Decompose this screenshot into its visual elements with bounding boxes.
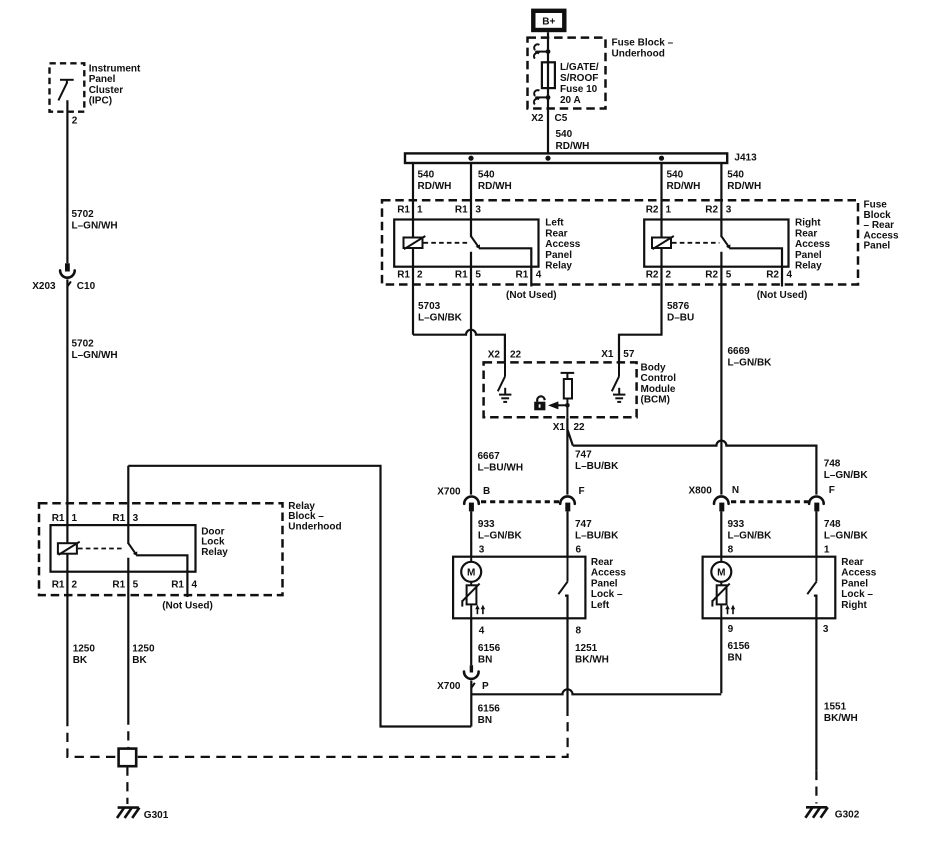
svg-text:R1: R1 bbox=[112, 579, 125, 590]
junction dot on J413 at 661.5 bbox=[659, 156, 664, 161]
svg-text:R1: R1 bbox=[52, 579, 65, 590]
svg-text:5: 5 bbox=[475, 269, 481, 280]
junction dot on J413 at 548 bbox=[545, 156, 550, 161]
svg-text:L–GN/BK: L–GN/BK bbox=[824, 470, 869, 481]
svg-text:748: 748 bbox=[824, 458, 841, 469]
svg-text:57: 57 bbox=[623, 349, 635, 360]
svg-text:L/GATE/: L/GATE/ bbox=[560, 62, 599, 73]
svg-text:(BCM): (BCM) bbox=[641, 395, 670, 406]
wire 6156 right lock pin 9 down bbox=[720, 618, 722, 693]
svg-text:L–GN/BK: L–GN/BK bbox=[418, 313, 463, 324]
svg-text:Underhood: Underhood bbox=[612, 48, 665, 59]
svg-text:M: M bbox=[467, 568, 475, 579]
wire label 933 L-GN/BK (right) bbox=[728, 519, 773, 542]
right lock pin labels bottom bbox=[728, 624, 829, 635]
right lock motor wires bbox=[720, 557, 722, 619]
svg-text:BK/WH: BK/WH bbox=[824, 713, 858, 724]
svg-text:Panel: Panel bbox=[591, 578, 618, 589]
svg-text:(Not Used): (Not Used) bbox=[162, 601, 213, 612]
svg-text:R1: R1 bbox=[455, 205, 468, 216]
svg-text:X2: X2 bbox=[531, 113, 544, 124]
left relay name label bbox=[545, 218, 580, 272]
svg-text:Panel: Panel bbox=[841, 578, 868, 589]
fuse block rear access panel dashed box bbox=[382, 200, 858, 284]
splice pack J413 bus bbox=[405, 153, 757, 164]
svg-text:RD/WH: RD/WH bbox=[667, 181, 701, 192]
svg-text:1250: 1250 bbox=[132, 643, 155, 654]
svg-text:Fuse 10: Fuse 10 bbox=[560, 84, 598, 95]
svg-text:RD/WH: RD/WH bbox=[418, 181, 452, 192]
dashed ground wire from pin5 to splice bbox=[127, 716, 129, 748]
rear access panel lock left box bbox=[453, 557, 585, 619]
svg-text:R2: R2 bbox=[705, 205, 718, 216]
svg-text:1: 1 bbox=[72, 513, 78, 524]
relay K-left box (Left Rear Access Panel Relay) bbox=[394, 220, 538, 267]
svg-text:8: 8 bbox=[576, 626, 582, 637]
dashed ground bus splice to 1251 wire bbox=[138, 716, 568, 757]
right relay name label bbox=[795, 218, 830, 272]
svg-text:Rear: Rear bbox=[795, 228, 817, 239]
svg-text:X1: X1 bbox=[601, 349, 614, 360]
connector X800 pin F bbox=[809, 497, 824, 512]
svg-text:5703: 5703 bbox=[418, 301, 441, 312]
BCM name label bbox=[641, 362, 677, 405]
svg-text:X700: X700 bbox=[437, 487, 461, 498]
svg-text:3: 3 bbox=[726, 205, 732, 216]
left lock pin labels top bbox=[479, 544, 582, 555]
svg-text:L–GN/BK: L–GN/BK bbox=[478, 530, 523, 541]
svg-text:BK/WH: BK/WH bbox=[575, 654, 609, 665]
svg-text:G301: G301 bbox=[144, 810, 169, 821]
left relay coil bbox=[404, 236, 426, 249]
connector X203 C10 bbox=[60, 263, 75, 286]
svg-text:BN: BN bbox=[728, 652, 742, 663]
BCM internal switch at X2-22 bbox=[498, 362, 505, 391]
wire label 748 L-GN/BK (upper) bbox=[824, 458, 869, 481]
wire label 1551 BK/WH bbox=[824, 701, 858, 724]
svg-text:R2: R2 bbox=[705, 269, 718, 280]
wire label 6156 BN (left) bbox=[478, 643, 501, 666]
svg-text:X800: X800 bbox=[688, 486, 712, 497]
svg-text:4: 4 bbox=[479, 626, 485, 637]
right relay pin labels bottom bbox=[646, 269, 793, 280]
svg-text:(Not Used): (Not Used) bbox=[506, 290, 557, 301]
svg-text:N: N bbox=[732, 485, 739, 496]
svg-text:540: 540 bbox=[556, 129, 573, 140]
svg-text:R2: R2 bbox=[766, 269, 779, 280]
BCM internal ground right bbox=[613, 388, 625, 402]
wire 540 RD/WH J413 to right relay pin 3 bbox=[720, 163, 722, 237]
instrument panel cluster dashed box bbox=[50, 63, 85, 111]
svg-text:L–BU/WH: L–BU/WH bbox=[478, 463, 524, 474]
left lock switch bbox=[558, 557, 567, 619]
left relay pin labels bottom bbox=[397, 269, 542, 280]
svg-text:R2: R2 bbox=[646, 205, 659, 216]
svg-text:P: P bbox=[482, 681, 489, 692]
BCM unlock padlock icon bbox=[534, 396, 545, 410]
right relay switch arm bbox=[722, 237, 731, 250]
svg-text:4: 4 bbox=[787, 269, 793, 280]
ground splice S-box bbox=[119, 749, 137, 767]
svg-text:Panel: Panel bbox=[795, 250, 822, 261]
svg-text:Panel: Panel bbox=[89, 74, 116, 85]
svg-text:F: F bbox=[829, 485, 835, 496]
wire label 747 L-BU/BK (lower) bbox=[575, 519, 619, 542]
svg-text:6156: 6156 bbox=[478, 703, 501, 714]
svg-text:L–BU/BK: L–BU/BK bbox=[575, 530, 619, 541]
wire label 540 RD/WH (pin R1-1) bbox=[418, 170, 452, 193]
fuse clip bottom bbox=[534, 90, 550, 104]
junction dot on J413 at 471 bbox=[468, 156, 473, 161]
svg-text:C5: C5 bbox=[555, 113, 568, 124]
wire 1551 right lock pin 3 down bbox=[815, 618, 817, 771]
BCM connector labels X1 22 bbox=[553, 422, 585, 433]
BCM driver output arrow bbox=[548, 401, 570, 409]
svg-text:5702: 5702 bbox=[72, 209, 95, 220]
svg-text:Access: Access bbox=[841, 568, 876, 579]
connector X700 B-F dashed body bbox=[481, 500, 560, 503]
svg-text:R1: R1 bbox=[397, 205, 410, 216]
IPC name label bbox=[89, 63, 141, 106]
IPC internal switch bbox=[58, 79, 73, 100]
BCM internal ground left bbox=[499, 388, 511, 402]
svg-text:1250: 1250 bbox=[73, 643, 96, 654]
svg-text:6667: 6667 bbox=[478, 451, 501, 462]
svg-text:J413: J413 bbox=[734, 153, 757, 164]
connector X700 label row bbox=[437, 486, 584, 498]
svg-text:748: 748 bbox=[824, 519, 841, 530]
wire X700 P down to corner bbox=[470, 681, 472, 727]
wire 747 BCM X1-22 down to X700 F bbox=[566, 417, 568, 494]
svg-text:M: M bbox=[717, 568, 725, 579]
svg-text:L–GN/WH: L–GN/WH bbox=[72, 221, 118, 232]
svg-text:C10: C10 bbox=[77, 281, 96, 292]
relay block underhood dashed box bbox=[39, 503, 283, 595]
wire label 748 L-GN/BK (lower) bbox=[824, 519, 869, 542]
wire 933 X700 B to left lock pin 3 bbox=[470, 511, 472, 556]
svg-text:6: 6 bbox=[576, 544, 582, 555]
relay block underhood label bbox=[288, 501, 341, 533]
wire 6156 P to right lock pin 9 (hops over 1251) bbox=[471, 689, 721, 694]
svg-text:(IPC): (IPC) bbox=[89, 96, 112, 107]
svg-text:5: 5 bbox=[726, 269, 732, 280]
ground G302 bbox=[805, 807, 859, 820]
connector X700 pin P bbox=[464, 665, 479, 688]
svg-text:X2: X2 bbox=[488, 350, 501, 361]
right relay contact to pin 4 bbox=[729, 248, 782, 286]
svg-text:R1: R1 bbox=[455, 269, 468, 280]
BCM connector labels X1 57 bbox=[601, 349, 635, 360]
right relay coil bbox=[652, 236, 674, 249]
svg-text:4: 4 bbox=[192, 579, 198, 590]
connector X800 label row bbox=[688, 485, 834, 496]
svg-text:Panel: Panel bbox=[864, 241, 891, 252]
wire 540 from B+ through fuse to J413 bbox=[547, 32, 549, 153]
wire 6669 right relay pin 5 down to X800 N bbox=[720, 252, 722, 495]
svg-text:540: 540 bbox=[478, 170, 495, 181]
right lock switch bbox=[807, 557, 816, 619]
wire link P to door lock relay pin 3 bbox=[128, 466, 471, 727]
svg-text:Left: Left bbox=[591, 600, 610, 611]
body control module BCM dashed box bbox=[484, 362, 637, 417]
svg-text:Lock: Lock bbox=[201, 537, 225, 548]
relay K-right box (Right Rear Access Panel Relay) bbox=[644, 220, 788, 267]
svg-text:933: 933 bbox=[728, 519, 745, 530]
svg-text:6156: 6156 bbox=[478, 643, 501, 654]
svg-text:Body: Body bbox=[641, 362, 666, 373]
svg-text:Module: Module bbox=[641, 384, 676, 395]
svg-text:BK: BK bbox=[73, 655, 88, 666]
svg-text:RD/WH: RD/WH bbox=[478, 181, 512, 192]
svg-text:Right: Right bbox=[795, 218, 821, 229]
svg-text:747: 747 bbox=[575, 519, 592, 530]
svg-text:R1: R1 bbox=[516, 269, 529, 280]
wire label 540 RD/WH (pin R2-1) bbox=[667, 170, 701, 193]
wire 933 X800 N to right lock pin 8 bbox=[720, 511, 722, 556]
svg-text:R1: R1 bbox=[171, 579, 184, 590]
wire label 540 RD/WH (below fuse) bbox=[556, 129, 590, 152]
wire label 5703 L-GN/BK bbox=[418, 301, 463, 324]
wire 747/748 branch to X800 F (hops over 6669) bbox=[567, 430, 816, 495]
svg-text:22: 22 bbox=[510, 350, 522, 361]
svg-text:540: 540 bbox=[727, 170, 744, 181]
svg-text:D–BU: D–BU bbox=[667, 313, 694, 324]
door relay coil bbox=[58, 542, 80, 555]
wire 747 X700 F to left lock pin 6 bbox=[566, 511, 568, 556]
svg-text:X203: X203 bbox=[32, 281, 56, 292]
svg-text:3: 3 bbox=[133, 513, 139, 524]
svg-text:933: 933 bbox=[478, 519, 495, 530]
svg-text:L–GN/BK: L–GN/BK bbox=[824, 530, 869, 541]
connector X800 pin N bbox=[714, 496, 729, 511]
svg-text:R2: R2 bbox=[646, 269, 659, 280]
battery terminal B+ bbox=[533, 11, 564, 30]
right lock pin labels top bbox=[728, 544, 830, 555]
BCM lock driver bbox=[561, 373, 575, 417]
svg-text:6669: 6669 bbox=[728, 346, 751, 357]
connector X700 P labels bbox=[437, 681, 489, 692]
svg-text:Panel: Panel bbox=[545, 250, 572, 261]
svg-text:5: 5 bbox=[133, 579, 139, 590]
svg-text:Left: Left bbox=[545, 218, 564, 229]
svg-text:1551: 1551 bbox=[824, 701, 847, 712]
right relay pin labels top bbox=[646, 205, 732, 216]
door relay name label bbox=[201, 526, 228, 558]
left lock motor M1 bbox=[461, 562, 481, 582]
wire label 933 L-GN/BK (left) bbox=[478, 519, 523, 542]
ground G301 bbox=[117, 808, 169, 821]
svg-text:Fuse Block –: Fuse Block – bbox=[612, 38, 674, 49]
dashed ground wire from pin2 to splice bbox=[67, 717, 117, 757]
svg-text:BK: BK bbox=[132, 655, 147, 666]
connector X2 C5 labels bbox=[531, 113, 567, 124]
wire 6156 left lock pin 4 to X700 P bbox=[470, 618, 472, 665]
svg-text:Access: Access bbox=[795, 239, 830, 250]
left relay coil-switch dashed link bbox=[424, 242, 470, 244]
door relay pin 5 wire bbox=[127, 558, 129, 716]
svg-text:L–GN/BK: L–GN/BK bbox=[728, 530, 773, 541]
svg-text:RD/WH: RD/WH bbox=[556, 141, 590, 152]
wire 5702 IPC pin 2 to X203 bbox=[66, 100, 68, 263]
svg-text:Door: Door bbox=[201, 526, 224, 537]
door relay pin labels bottom bbox=[52, 579, 198, 590]
wire label 5876 D-BU bbox=[667, 301, 694, 324]
door relay coil-switch dashed link bbox=[78, 548, 123, 550]
wire door relay pin 3 drop bbox=[127, 466, 129, 544]
door relay pin labels top bbox=[52, 513, 139, 524]
svg-text:Access: Access bbox=[591, 568, 626, 579]
svg-text:R1: R1 bbox=[52, 513, 65, 524]
fuse value label bbox=[560, 62, 599, 106]
wire label 5702 L-GN/WH (lower) bbox=[72, 339, 118, 362]
door relay contact to pin 4 bbox=[136, 555, 187, 597]
svg-text:2: 2 bbox=[666, 269, 672, 280]
fuse clip top bbox=[534, 44, 550, 58]
svg-text:Lock –: Lock – bbox=[841, 589, 873, 600]
svg-text:B+: B+ bbox=[542, 17, 555, 28]
wire 1250 door relay pin 2 down bbox=[66, 554, 68, 717]
svg-text:(Not Used): (Not Used) bbox=[757, 290, 808, 301]
wire label 6669 L-GN/BK bbox=[728, 346, 773, 369]
svg-text:4: 4 bbox=[536, 269, 542, 280]
wire label 540 RD/WH (pin R1-3) bbox=[478, 170, 512, 193]
wire label 1251 BK/WH bbox=[575, 643, 609, 666]
svg-text:Control: Control bbox=[641, 373, 677, 384]
svg-text:6156: 6156 bbox=[728, 641, 751, 652]
right lock PTC thermistor bbox=[712, 584, 729, 607]
wire 748 X800 F to right lock pin 1 bbox=[815, 511, 817, 556]
svg-text:L–GN/BK: L–GN/BK bbox=[728, 357, 773, 368]
svg-text:Cluster: Cluster bbox=[89, 85, 124, 96]
svg-text:5702: 5702 bbox=[72, 339, 95, 350]
wire 5702 X203 to door relay pin 1 bbox=[66, 279, 68, 544]
fuse block underhood label bbox=[612, 38, 674, 60]
svg-text:RD/WH: RD/WH bbox=[727, 181, 761, 192]
svg-text:Relay: Relay bbox=[795, 261, 822, 272]
svg-text:9: 9 bbox=[728, 624, 734, 635]
svg-text:Rear: Rear bbox=[841, 557, 863, 568]
svg-text:540: 540 bbox=[418, 170, 435, 181]
svg-text:Relay: Relay bbox=[288, 501, 315, 512]
right lock direction arrows bbox=[725, 605, 735, 615]
svg-text:Relay: Relay bbox=[201, 547, 228, 558]
svg-text:3: 3 bbox=[475, 205, 481, 216]
door lock relay box bbox=[51, 525, 196, 572]
dashed wire splice to G301 bbox=[126, 766, 128, 804]
svg-text:22: 22 bbox=[574, 422, 586, 433]
svg-text:3: 3 bbox=[823, 624, 829, 635]
right lock motor M2 bbox=[711, 562, 731, 582]
left relay contact to pin 4 bbox=[479, 248, 531, 286]
svg-text:BN: BN bbox=[478, 715, 492, 726]
svg-text:Underhood: Underhood bbox=[288, 522, 341, 533]
svg-text:X1: X1 bbox=[553, 422, 566, 433]
svg-text:20 A: 20 A bbox=[560, 95, 581, 106]
door relay switch arm bbox=[129, 544, 138, 557]
left relay pin labels top bbox=[397, 205, 481, 216]
svg-text:Relay: Relay bbox=[545, 261, 572, 272]
svg-text:X700: X700 bbox=[437, 681, 461, 692]
svg-text:5876: 5876 bbox=[667, 301, 690, 312]
svg-text:747: 747 bbox=[575, 450, 592, 461]
svg-text:540: 540 bbox=[667, 170, 684, 181]
svg-text:2: 2 bbox=[417, 269, 423, 280]
svg-text:S/ROOF: S/ROOF bbox=[560, 73, 598, 84]
left lock pin labels bottom bbox=[479, 626, 582, 637]
svg-text:R1: R1 bbox=[112, 513, 125, 524]
left lock PTC thermistor bbox=[462, 584, 479, 607]
svg-text:Instrument: Instrument bbox=[89, 63, 141, 74]
wire label 1250 BK (pin5) bbox=[132, 643, 155, 666]
left lock name label bbox=[591, 557, 626, 611]
right relay coil-switch dashed link bbox=[672, 242, 719, 244]
svg-text:1: 1 bbox=[417, 205, 423, 216]
connector X700 pin B bbox=[464, 497, 479, 512]
svg-text:Lock –: Lock – bbox=[591, 589, 623, 600]
svg-text:G302: G302 bbox=[835, 809, 860, 820]
wire 540 RD/WH J413 to left relay pin 3 bbox=[470, 163, 472, 237]
svg-text:3: 3 bbox=[479, 544, 485, 555]
svg-text:Right: Right bbox=[841, 600, 867, 611]
wire 5876 right relay pin 2 to BCM X1-57 bbox=[619, 248, 662, 362]
svg-text:Access: Access bbox=[545, 239, 580, 250]
wire label 6156 BN (below P) bbox=[478, 703, 501, 726]
wire 540 RD/WH J413 to left relay pin 1 bbox=[412, 163, 414, 238]
right lock name label bbox=[841, 557, 876, 611]
fuse F10 L/GATE S/ROOF body bbox=[542, 62, 555, 88]
wire label 6156 BN (right) bbox=[728, 641, 751, 664]
BCM connector labels X2 22 bbox=[488, 350, 522, 361]
fuse block rear access panel label bbox=[864, 200, 899, 252]
left lock direction arrows bbox=[475, 605, 485, 615]
BCM internal switch at X1-57 bbox=[612, 362, 619, 391]
connector X800 N-F dashed body bbox=[731, 500, 809, 503]
svg-text:F: F bbox=[579, 486, 585, 497]
dashed wire 1551 to G302 bbox=[815, 771, 817, 804]
svg-text:8: 8 bbox=[728, 544, 734, 555]
connector X700 pin F bbox=[560, 496, 575, 511]
wire 5703 left relay pin 2 to BCM X2-22 (hops over pin5 wire) bbox=[413, 248, 505, 362]
wire label 747 L-BU/BK (upper) bbox=[575, 450, 619, 473]
rear access panel lock right box bbox=[703, 557, 836, 619]
wire 6667 left relay pin 5 down to X700 B bbox=[470, 252, 472, 495]
wire label 5702 L-GN/WH (upper) bbox=[72, 209, 118, 232]
svg-text:Rear: Rear bbox=[545, 228, 567, 239]
wire 1251 left lock pin 8 down bbox=[566, 618, 568, 716]
svg-text:1: 1 bbox=[824, 544, 830, 555]
svg-text:Rear: Rear bbox=[591, 557, 613, 568]
wire label 540 RD/WH (pin R2-3) bbox=[727, 170, 761, 193]
svg-text:L–BU/BK: L–BU/BK bbox=[575, 461, 619, 472]
fuse block underhood dashed box bbox=[528, 38, 606, 109]
wire label 1250 BK (pin2) bbox=[73, 643, 96, 666]
svg-text:2: 2 bbox=[72, 116, 78, 127]
wire label 6667 L-BU/WH bbox=[478, 451, 524, 474]
svg-text:1251: 1251 bbox=[575, 643, 598, 654]
svg-text:B: B bbox=[483, 486, 490, 497]
connector X203 C10 labels bbox=[32, 281, 95, 292]
svg-text:R1: R1 bbox=[397, 269, 410, 280]
svg-text:BN: BN bbox=[478, 654, 492, 665]
svg-text:L–GN/WH: L–GN/WH bbox=[72, 350, 118, 361]
svg-text:Block –: Block – bbox=[288, 511, 324, 522]
left relay switch arm bbox=[471, 237, 480, 250]
svg-text:1: 1 bbox=[666, 205, 672, 216]
svg-text:2: 2 bbox=[72, 579, 78, 590]
wire 540 RD/WH J413 to right relay pin 1 bbox=[660, 163, 662, 238]
left lock motor wires bbox=[470, 557, 472, 619]
